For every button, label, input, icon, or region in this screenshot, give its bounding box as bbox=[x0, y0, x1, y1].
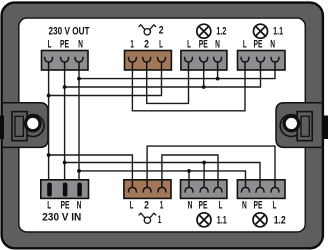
pin A-PE bbox=[61, 57, 69, 70]
pin C-N bbox=[214, 57, 222, 70]
node N-bottom junction bbox=[77, 169, 81, 173]
pin B-L bbox=[158, 57, 166, 70]
node L-top junction bbox=[47, 94, 51, 98]
lamp 1.2 top symbol bbox=[197, 24, 211, 38]
pin H-L bbox=[271, 180, 279, 192]
left mounting lug bbox=[3, 103, 48, 148]
svg-text:N: N bbox=[270, 39, 275, 51]
svg-text:N: N bbox=[215, 39, 220, 51]
svg-text:PE: PE bbox=[254, 200, 263, 212]
svg-text:1.2: 1.2 bbox=[274, 215, 286, 227]
right mounting lug bbox=[276, 103, 322, 148]
pin D-N bbox=[271, 57, 279, 70]
wire top L line to switch B-L bbox=[49, 70, 162, 96]
connector lamp 1.2 top (block C) bbox=[181, 51, 227, 71]
svg-text:2: 2 bbox=[159, 24, 164, 36]
wire bottom PE distribution line to H-PE bbox=[65, 163, 260, 181]
pin C-PE bbox=[200, 57, 208, 70]
pin F-L bbox=[128, 180, 136, 192]
node C-N junction bbox=[216, 77, 220, 81]
wire switch F output 2 to lamp H-L bbox=[147, 146, 275, 180]
pin A-N bbox=[75, 57, 83, 70]
connector 230V OUT (block A) bbox=[42, 51, 89, 71]
pin E-L bbox=[47, 183, 52, 197]
wire top N distribution line to D-N bbox=[79, 70, 275, 79]
wire bottom L line to switch F-L bbox=[49, 155, 133, 180]
svg-text:1.2: 1.2 bbox=[216, 25, 226, 37]
switch 2 symbol (series switch, top) bbox=[139, 25, 156, 35]
connector 230V IN (block E) bbox=[41, 180, 89, 199]
inner white panel bbox=[19, 18, 305, 232]
wire L supply vertical (230V OUT to 230V IN) bbox=[48, 70, 50, 184]
svg-text:N: N bbox=[77, 200, 82, 212]
svg-text:1: 1 bbox=[160, 200, 164, 212]
svg-text:L: L bbox=[159, 39, 163, 51]
svg-text:2: 2 bbox=[144, 200, 149, 212]
node PE-top junction bbox=[63, 85, 67, 89]
wire PE supply vertical bbox=[64, 70, 66, 184]
pin G-N bbox=[185, 180, 193, 192]
pin B-2 bbox=[143, 57, 151, 70]
node L-bottom junction bbox=[47, 153, 51, 157]
pin H-PE bbox=[256, 180, 264, 192]
lamp 1.1 bottom symbol bbox=[197, 213, 211, 227]
terminal fork symbols, bottom row (open down) bbox=[128, 180, 279, 192]
node G-N junction bbox=[187, 169, 191, 173]
svg-text:1: 1 bbox=[158, 214, 162, 226]
svg-text:N: N bbox=[242, 200, 247, 212]
svg-text:L: L bbox=[243, 39, 247, 51]
pin E-PE bbox=[63, 183, 68, 197]
svg-text:L: L bbox=[187, 39, 191, 51]
svg-text:L: L bbox=[273, 200, 277, 212]
lamp 1.1 top symbol bbox=[254, 24, 268, 38]
wire G-PE stub bbox=[203, 163, 205, 181]
lamp 1.2 bottom symbol bbox=[253, 213, 267, 227]
svg-text:1.1: 1.1 bbox=[217, 214, 227, 226]
node G-PE junction bbox=[202, 161, 206, 165]
pin G-L bbox=[214, 180, 222, 192]
svg-text:N: N bbox=[188, 200, 193, 212]
svg-text:PE: PE bbox=[61, 200, 70, 212]
connector lamp 1.1 top (block D) bbox=[238, 51, 286, 71]
svg-text:PE: PE bbox=[199, 39, 208, 51]
svg-text:L: L bbox=[219, 200, 223, 212]
svg-text:2: 2 bbox=[144, 39, 149, 51]
wire switch B output 1 to lamp D-L bbox=[132, 70, 245, 111]
svg-text:L: L bbox=[47, 200, 51, 212]
wire G-N stub bbox=[188, 171, 190, 180]
terminal slots of 230V IN block bbox=[47, 183, 82, 197]
svg-text:1: 1 bbox=[130, 39, 134, 51]
pin F-2 bbox=[143, 180, 151, 192]
connector lamp 1.2 bottom (block H) bbox=[237, 180, 285, 199]
wire bottom N distribution line to H-N bbox=[79, 171, 246, 180]
node C-PE junction bbox=[202, 85, 206, 89]
junction dots bbox=[47, 77, 220, 173]
pin D-L bbox=[241, 57, 249, 70]
pin B-1 bbox=[128, 57, 136, 70]
left outer tab bbox=[0, 116, 4, 140]
svg-text:PE: PE bbox=[60, 39, 69, 51]
pin D-PE bbox=[257, 57, 265, 70]
svg-text:230 V OUT: 230 V OUT bbox=[49, 25, 90, 37]
svg-text:230 V IN: 230 V IN bbox=[42, 211, 81, 223]
svg-text:L: L bbox=[48, 39, 52, 51]
svg-text:PE: PE bbox=[199, 200, 208, 212]
svg-text:L: L bbox=[130, 200, 134, 212]
pin G-PE bbox=[200, 180, 208, 192]
connector switch 1 (block F) bbox=[124, 180, 171, 199]
wire N supply vertical bbox=[78, 70, 80, 184]
wire switch B output 2 to lamp C-L bbox=[147, 70, 189, 104]
pin H-N bbox=[242, 180, 250, 192]
svg-text:N: N bbox=[78, 39, 83, 51]
wire C-N stub bbox=[217, 70, 219, 79]
switch 1 symbol (series switch, bottom) bbox=[139, 213, 156, 223]
svg-text:PE: PE bbox=[254, 39, 263, 51]
terminal fork symbols, top row (open up) bbox=[45, 57, 279, 70]
node PE-bottom junction bbox=[63, 161, 67, 165]
right outer tab bbox=[324, 116, 328, 140]
wire top PE distribution line to D-PE bbox=[65, 70, 261, 88]
wire switch F output 1 to lamp G-L bbox=[162, 155, 218, 180]
connector lamp 1.1 bottom (block G) bbox=[181, 180, 227, 199]
svg-text:1.1: 1.1 bbox=[273, 25, 283, 37]
pin F-1 bbox=[158, 180, 166, 192]
pin E-N bbox=[77, 183, 82, 197]
pin A-L bbox=[45, 57, 53, 70]
connector switch 2 (block B) bbox=[125, 51, 172, 71]
wire C-PE stub bbox=[203, 70, 205, 88]
node N-top junction bbox=[77, 77, 81, 81]
pin C-L bbox=[185, 57, 193, 70]
